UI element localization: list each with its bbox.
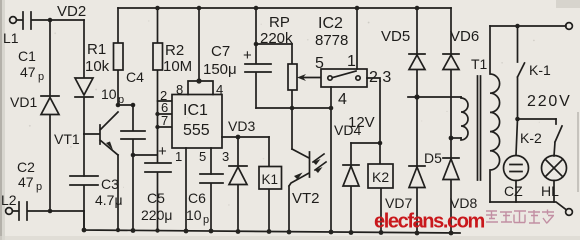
capacitor C6 [186,174,223,231]
svg-text:1: 1 [175,149,182,164]
relay K2 [368,143,393,232]
capacitor C3 [70,176,123,230]
svg-text:10M: 10M [163,58,192,75]
node [515,117,520,122]
terminal L2 [1,192,17,214]
svg-text:K-2: K-2 [520,130,542,146]
svg-text:5: 5 [199,149,206,164]
svg-text:VD8: VD8 [450,195,477,211]
capacitor C4 [101,69,157,231]
svg-text:VD7: VD7 [385,195,412,211]
wire [50,19,84,21]
svg-text:4: 4 [216,82,223,97]
svg-text:K1: K1 [262,172,279,187]
svg-text:C5: C5 [147,190,165,206]
node (L2 junction) [48,209,53,214]
scan edge shading [0,0,5,240]
wire (pin 5) [210,148,212,174]
svg-text:3: 3 [222,149,229,164]
svg-text:47: 47 [18,174,34,190]
wire (VT1 emitter) [117,155,119,230]
svg-text:T1: T1 [471,56,488,72]
svg-text:VD6: VD6 [450,28,479,45]
svg-text:R2: R2 [165,42,184,59]
svg-text:150μ: 150μ [203,61,237,78]
svg-text:K-1: K-1 [529,62,551,78]
svg-text:p: p [203,214,209,226]
svg-text:10: 10 [186,207,202,223]
capacitor C7 [203,6,271,108]
svg-text:C7: C7 [211,43,230,60]
svg-text:C2: C2 [17,159,35,175]
svg-text:K2: K2 [372,169,389,185]
wire (pins 2-6-7 column) [158,101,173,127]
svg-text:47: 47 [20,64,36,80]
svg-text:220k: 220k [260,30,293,47]
node (bridge mid left) [414,94,419,99]
svg-text:VD2: VD2 [57,3,86,20]
ground rail junction dots [82,228,454,236]
wire [118,104,133,106]
node [378,141,383,146]
wire (bottom right) [490,202,566,210]
svg-text:RP: RP [269,14,290,31]
switch K-1 [518,26,552,119]
svg-text:C6: C6 [188,190,206,206]
capacitor C1 [17,12,50,83]
wire (VD2 to C3) [83,134,85,176]
wire (pin 3 output) [222,136,269,138]
svg-text:220V: 220V [527,93,572,110]
op-amp U1 (IC1 555 timer) [172,6,222,148]
svg-text:CZ: CZ [504,183,523,199]
svg-text:12V: 12V [348,114,375,131]
node [415,6,420,11]
wire (ground rail) [84,211,460,233]
potentiometer RP [260,14,321,149]
svg-text:8778: 8778 [315,32,348,49]
transistor VT1 [54,112,118,155]
svg-text:1: 1 [347,53,356,70]
wire (IC2 2.3 pin to K2) [367,78,380,143]
resistor R1 [85,8,123,105]
wire (top rail) [118,7,451,9]
wire [50,210,84,212]
diode VD5 [381,8,425,97]
svg-text:+: + [158,143,167,160]
wire (mains top) [490,25,566,27]
diode VD1 [10,20,59,211]
node [355,6,360,11]
diode VD2 [57,3,93,134]
svg-text:L2: L2 [1,192,17,208]
svg-text:IC2: IC2 [318,15,343,32]
relay K1 [259,137,282,232]
capacitor C2 [13,159,51,220]
node (rail R2) [155,6,160,11]
wire [518,118,557,120]
node (pin6) [155,112,159,116]
wire [256,43,292,45]
node [515,24,520,29]
svg-text:8: 8 [176,82,183,97]
terminal (mains bottom) [566,209,573,216]
diode D5 [424,138,459,233]
wire [351,142,380,144]
svg-text:C1: C1 [18,48,36,64]
node (R1 bottom) [116,103,121,108]
diode VD7 [385,97,425,233]
wire (IC2 pin1 to rail) [356,8,358,69]
svg-text:R1: R1 [87,41,106,58]
svg-text:C4: C4 [126,69,144,85]
svg-text:5: 5 [315,55,324,72]
svg-text:VD1: VD1 [10,94,37,110]
svg-text:L1: L1 [3,30,19,46]
node (VD3 tap) [236,135,241,140]
svg-text:10k: 10k [85,58,110,75]
svg-text:C3: C3 [101,176,119,192]
svg-text:D5: D5 [424,150,442,166]
wire (CZ branch) [516,119,518,155]
svg-text:VD5: VD5 [381,28,410,45]
svg-text:7: 7 [161,113,168,128]
socket CZ [504,156,529,203]
wire (C7/RP bottom bus) [256,107,331,109]
wire (12V bus) [408,96,461,98]
svg-text:elecfans.com: elecfans.com [374,211,485,233]
op-amp U2 (IC2 8778) [315,15,367,87]
switch K-2 [520,119,562,156]
transformer T1 [451,26,500,202]
node A (L1 junction) [48,18,53,23]
wire (IC2 pin4 down to ground) [330,87,332,231]
svg-text:p: p [118,94,124,106]
svg-text:+: + [243,47,252,64]
node (bridge mid right) [449,136,454,141]
svg-text:VT1: VT1 [54,131,80,147]
node (pin4/bus) [329,106,334,111]
node (pin7) [155,125,159,129]
svg-text:VT2: VT2 [292,190,320,207]
watermark chinese characters [486,210,554,224]
terminal (mains top) [566,23,573,30]
transistor VT2 (photo) [289,149,326,231]
svg-text:IC1: IC1 [183,102,208,119]
svg-text:HL: HL [541,183,559,199]
svg-text:220μ: 220μ [141,207,172,223]
svg-text:4: 4 [338,91,347,108]
diode VD3 [228,118,255,232]
terminal L1 [3,17,19,46]
svg-text:p: p [36,181,42,193]
svg-text:p: p [38,71,44,83]
lamp HL [541,156,567,203]
node (RP bottom / bus) [290,106,295,111]
svg-text:10: 10 [101,86,117,102]
resistor R2 [153,8,192,101]
capacitor C5 [141,127,172,231]
svg-text:555: 555 [183,122,210,139]
diode VD4 [334,122,361,231]
diode VD6 [443,8,479,138]
svg-text:VD3: VD3 [228,118,255,134]
wire (pin 1 to ground) [185,148,187,231]
